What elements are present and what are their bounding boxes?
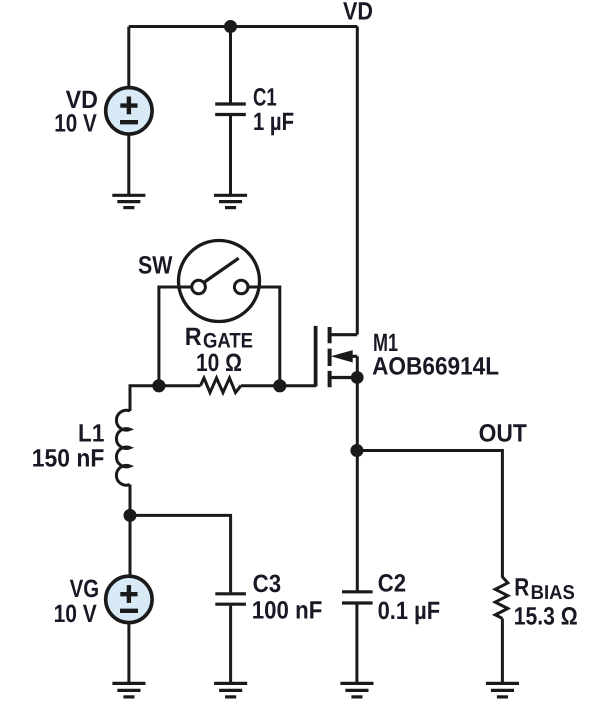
svg-text:150 nF: 150 nF <box>32 444 105 472</box>
wire switch left leg <box>159 287 192 386</box>
inductor L1 coil <box>116 410 130 485</box>
wire R_GATE right lead to M1 gate <box>241 384 316 387</box>
svg-text:C2: C2 <box>378 569 406 597</box>
resistor R_BIAS zigzag <box>495 577 508 619</box>
svg-text:C3: C3 <box>253 570 282 598</box>
svg-text:AOB66914L: AOB66914L <box>372 353 499 381</box>
wire VD source top lead <box>127 27 130 89</box>
svg-text:10 V: 10 V <box>54 600 97 628</box>
resistor R_GATE zigzag <box>201 378 242 393</box>
ground below C3 <box>214 683 247 697</box>
wire C2 bottom lead <box>355 604 358 683</box>
wire VD source bottom lead <box>127 134 130 195</box>
ground below R_BIAS <box>486 683 519 697</box>
node source-body junction dot of M1 <box>351 371 364 384</box>
capacitor C1 <box>215 104 246 115</box>
node R_GATE right junction <box>273 379 286 392</box>
svg-text:BIAS: BIAS <box>531 582 575 604</box>
node OUT junction dot <box>350 444 363 457</box>
svg-text:0.1 µF: 0.1 µF <box>378 597 441 625</box>
wire VG bottom lead <box>127 623 130 684</box>
svg-text:R: R <box>185 323 202 351</box>
switch SW <box>179 241 260 322</box>
node R_GATE left junction <box>152 379 165 392</box>
ground below VD source <box>112 195 145 207</box>
svg-text:100 nF: 100 nF <box>252 597 322 625</box>
wire R_BIAS bottom lead <box>501 619 504 684</box>
capacitor C2 <box>342 592 373 603</box>
svg-text:VD: VD <box>343 0 373 26</box>
wire VG top lead <box>129 515 132 576</box>
wire switch right leg <box>248 287 280 386</box>
wire top rail from VD source to M1 drain <box>129 25 357 28</box>
wire M1 drain rail <box>356 27 359 335</box>
voltage source VG <box>106 576 152 622</box>
svg-text:1 µF: 1 µF <box>253 108 294 136</box>
wire R_GATE left lead and L1 corner <box>130 386 201 411</box>
svg-text:10 V: 10 V <box>54 109 97 137</box>
wire C1 bottom lead <box>229 116 232 195</box>
svg-text:SW: SW <box>138 252 173 280</box>
wire C1 top lead <box>229 27 232 103</box>
svg-text:OUT: OUT <box>479 419 527 447</box>
wire L1 bottom lead <box>129 485 132 516</box>
wire M1 source rail down to C2 <box>356 356 359 592</box>
svg-text:10 Ω: 10 Ω <box>196 349 242 377</box>
wire C3 bottom lead <box>229 606 232 684</box>
wire OUT to R_BIAS <box>357 451 503 578</box>
voltage source VD <box>106 88 152 134</box>
node L1-VG-C3 junction <box>124 509 137 522</box>
ground below C1 <box>214 195 247 207</box>
node junction dot on top rail at C1 tap <box>224 20 237 33</box>
svg-text:R: R <box>514 573 529 601</box>
transistor M1 NMOS symbol <box>316 326 358 387</box>
capacitor C3 <box>215 594 246 604</box>
ground below VG <box>112 683 145 697</box>
svg-text:C1: C1 <box>253 83 277 111</box>
svg-text:15.3 Ω: 15.3 Ω <box>514 603 578 631</box>
wire junction to C3 top <box>130 515 231 592</box>
ground below C2 <box>340 683 373 697</box>
